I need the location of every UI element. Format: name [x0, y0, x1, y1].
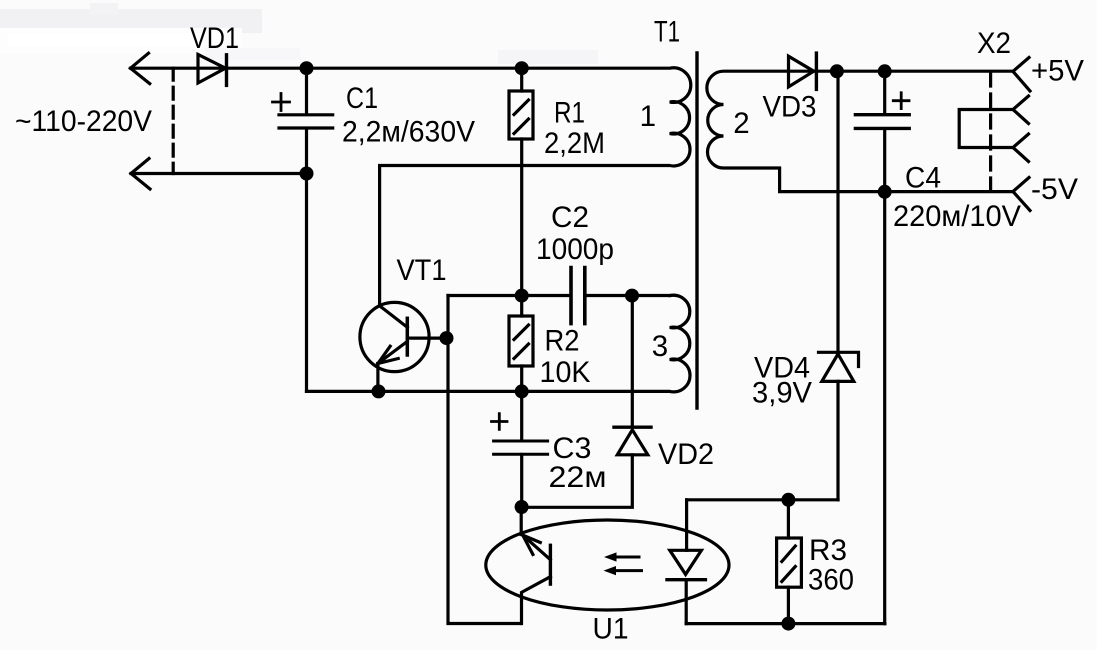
svg-text:C1: C1: [346, 82, 378, 115]
svg-text:R1: R1: [554, 96, 585, 129]
svg-text:VT1: VT1: [397, 254, 447, 287]
svg-text:10K: 10K: [540, 356, 591, 389]
svg-text:R3: R3: [809, 534, 847, 567]
svg-text:22м: 22м: [549, 461, 607, 494]
svg-text:2,2м/630V: 2,2м/630V: [342, 116, 475, 149]
svg-text:X2: X2: [977, 27, 1011, 60]
svg-text:360: 360: [808, 564, 854, 597]
svg-text:3: 3: [652, 330, 668, 363]
svg-text:C2: C2: [551, 201, 589, 234]
svg-text:~110-220V: ~110-220V: [15, 105, 152, 138]
svg-text:1000p: 1000p: [536, 233, 614, 266]
svg-text:R2: R2: [545, 325, 580, 358]
svg-text:-5V: -5V: [1031, 173, 1078, 206]
svg-text:2,2M: 2,2M: [544, 127, 605, 160]
svg-text:VD1: VD1: [190, 22, 239, 55]
svg-text:VD2: VD2: [658, 438, 714, 471]
svg-text:3,9V: 3,9V: [752, 377, 812, 410]
svg-text:T1: T1: [654, 16, 680, 49]
svg-text:C4: C4: [905, 162, 941, 195]
svg-text:+5V: +5V: [1031, 55, 1084, 88]
svg-text:1: 1: [640, 100, 656, 133]
svg-text:U1: U1: [593, 613, 629, 646]
svg-text:VD3: VD3: [763, 91, 817, 124]
svg-text:220м/10V: 220м/10V: [893, 200, 1021, 233]
svg-text:2: 2: [733, 107, 749, 140]
